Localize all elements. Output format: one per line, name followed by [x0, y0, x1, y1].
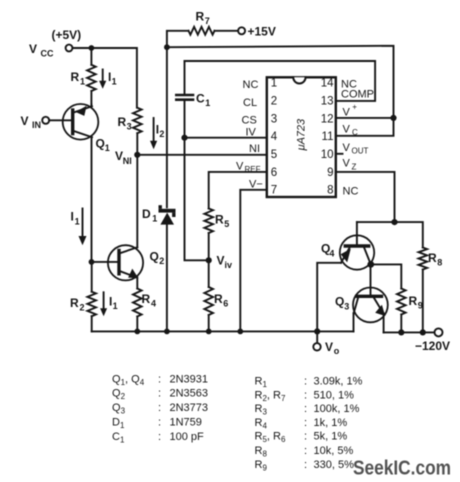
svg-text:7: 7 [271, 185, 277, 197]
node junction Q4 collector / Q3 base / R9 [367, 261, 374, 268]
svg-text:R9​: R9​ [255, 459, 268, 473]
svg-text:R: R [71, 70, 80, 84]
svg-text:8: 8 [437, 258, 442, 268]
svg-text:Z: Z [352, 163, 357, 172]
svg-text:100 pF: 100 pF [170, 431, 205, 443]
op-amp/regulator U1 uA723 [267, 77, 336, 197]
svg-text:330, 5%: 330, 5% [314, 459, 355, 471]
resistor R1 [71, 48, 96, 105]
svg-text:V: V [325, 340, 333, 354]
svg-text:Q: Q [150, 250, 159, 264]
capacitor C1 [176, 61, 210, 138]
svg-text:NI: NI [249, 143, 260, 155]
svg-text::: : [158, 373, 161, 385]
wire IC pin 9 VZ to Q4 base and R8 [336, 172, 423, 248]
svg-text:1: 1 [271, 78, 277, 90]
resistor R4 [133, 277, 156, 331]
svg-text:14: 14 [321, 78, 334, 90]
svg-text::: : [304, 403, 307, 415]
value label parts list left column [112, 373, 208, 444]
pin numbers left 1-7 [271, 78, 278, 197]
svg-text:1: 1 [80, 77, 85, 87]
svg-text:R: R [142, 292, 151, 306]
pin label CL pin2 [243, 97, 257, 109]
node VIN terminal [21, 114, 50, 130]
resistor R5 [204, 209, 229, 261]
svg-text:R: R [214, 292, 223, 306]
node VO terminal [313, 331, 340, 356]
node VNI [115, 149, 140, 166]
svg-text:R3​: R3​ [255, 403, 268, 417]
svg-text:510, 1%: 510, 1% [314, 389, 355, 401]
svg-text:1: 1 [205, 98, 210, 108]
resistor R6 [204, 260, 228, 331]
wire C1 top to IC pin 13 COMP [185, 61, 376, 101]
svg-text:2: 2 [159, 256, 164, 266]
node junction R8/-120V rail [420, 329, 426, 335]
node junction VO/rail [314, 328, 320, 334]
svg-text:OUT: OUT [352, 147, 369, 156]
svg-text:R8​: R8​ [255, 445, 268, 459]
svg-text::: : [304, 376, 307, 388]
wire Q4 collector node to R9 [371, 264, 402, 288]
transistor Q3 (NPN 2N3773) [335, 288, 388, 323]
svg-text:2: 2 [159, 129, 164, 139]
svg-text:COMP: COMP [341, 89, 374, 101]
svg-text:V: V [21, 114, 29, 128]
resistor R2 [70, 262, 96, 332]
pin label COMP pin13 [341, 89, 374, 101]
svg-text:Q: Q [335, 295, 344, 309]
svg-text:+15V: +15V [248, 25, 276, 39]
svg-text:2N3773: 2N3773 [170, 402, 209, 414]
svg-text:NI: NI [123, 156, 132, 166]
svg-text:V: V [343, 124, 351, 136]
resistor R3 [118, 108, 142, 155]
wire -120V rail [384, 331, 435, 333]
svg-text:7: 7 [205, 16, 210, 26]
svg-text:C1​: C1​ [112, 431, 125, 445]
svg-text:1: 1 [75, 217, 80, 227]
node junction R7/D1/V+ rail [164, 44, 170, 50]
svg-text:2N3931: 2N3931 [170, 373, 209, 385]
node junction VCC/R1 [89, 45, 95, 51]
wire VNI node down to Q2 collector [136, 155, 138, 248]
current arrow I2 (through R3) [150, 118, 164, 149]
svg-text:5: 5 [224, 219, 229, 229]
pin label V+ pin12 [343, 103, 358, 119]
svg-text:+: + [352, 103, 357, 112]
pin label NC pin14 [341, 79, 357, 91]
transistor Q1 (PNP 2N3931) [63, 104, 110, 153]
value label parts list right column [255, 376, 363, 473]
wire IV node down to Viv [185, 138, 209, 261]
svg-text:1k, 1%: 1k, 1% [314, 417, 348, 429]
svg-text:C: C [352, 128, 358, 137]
svg-text:4: 4 [151, 299, 156, 309]
node Viv junction R5/R6 [206, 254, 232, 271]
svg-text:V: V [29, 42, 37, 56]
wire VNI to IC pin 5 (NI) [137, 154, 266, 156]
wire Q2 base node to Q2 [92, 261, 119, 263]
svg-text:10k, 5%: 10k, 5% [314, 445, 354, 457]
svg-text::: : [304, 445, 307, 457]
svg-text:2N3563: 2N3563 [170, 388, 209, 400]
svg-text:6: 6 [271, 167, 277, 179]
svg-text::: : [304, 389, 307, 401]
svg-text:R: R [196, 10, 205, 24]
svg-text:(+5V): (+5V) [52, 28, 82, 42]
svg-text:9: 9 [418, 301, 423, 311]
node VCC (+5V) terminal [29, 28, 81, 59]
svg-text:CC: CC [41, 49, 54, 59]
wire VIN to Q1 base [49, 119, 71, 121]
svg-text:R: R [428, 251, 437, 265]
svg-text::: : [158, 431, 161, 443]
wire +15V rail to IC V+ and VC [167, 46, 394, 118]
svg-text::: : [158, 388, 161, 400]
node junction R4/rail [134, 329, 140, 335]
svg-text:R: R [215, 213, 224, 227]
wire Q4 collector node to Q3 base [370, 264, 372, 296]
wire output rail (VO) [92, 330, 354, 332]
svg-text:NC: NC [343, 186, 359, 198]
wire IC pin 6 VREF to R5 [209, 172, 267, 209]
node junction V+/VC [390, 115, 396, 121]
wire Q1 collector down to Q2 base node [91, 137, 93, 262]
svg-text:10: 10 [321, 149, 334, 161]
svg-text:Q3​: Q3​ [112, 402, 126, 416]
svg-text:V: V [236, 161, 244, 173]
svg-text:R4​: R4​ [255, 417, 268, 431]
wire IC pin 4 IV [185, 137, 267, 139]
wire IC pin 11 VC [336, 118, 394, 136]
svg-text:2: 2 [80, 303, 85, 313]
svg-text:11: 11 [322, 131, 334, 143]
pin label VREF pin6 [236, 161, 261, 175]
svg-text:3.09k, 1%: 3.09k, 1% [314, 376, 363, 388]
wire Q3 emitter down to -120V rail [383, 313, 385, 332]
pin label NC pin1 [243, 79, 259, 91]
pin label CS pin3 [242, 115, 257, 127]
svg-text:5: 5 [271, 149, 277, 161]
svg-text:I: I [71, 210, 74, 224]
svg-text:CL: CL [243, 97, 257, 109]
svg-text:V: V [343, 107, 351, 119]
node junction R6/rail [206, 329, 212, 335]
svg-text::: : [304, 431, 307, 443]
resistor R7 [167, 10, 238, 48]
svg-text::: : [304, 459, 307, 471]
svg-text:R: R [409, 294, 418, 308]
svg-text:13: 13 [321, 95, 334, 107]
svg-text:4: 4 [329, 249, 334, 259]
svg-text:3: 3 [344, 302, 349, 312]
transistor Q2 (NPN 2N3563) [108, 245, 164, 280]
transistor Q4 (PNP 2N3931) [321, 235, 374, 269]
wire IC pin 7 V- down to output rail [240, 190, 266, 332]
wire Q4 emitter to output rail [317, 263, 341, 332]
watermark SeekIC.com [353, 457, 451, 479]
svg-text:IN: IN [32, 120, 41, 130]
node Q2 base junction [89, 259, 95, 265]
zener diode D1 (1N759) [142, 205, 176, 331]
svg-text:1: 1 [152, 213, 157, 223]
svg-text:V: V [217, 254, 225, 268]
svg-text:9: 9 [327, 167, 333, 179]
svg-text::: : [158, 417, 161, 429]
svg-text:R2​, R7​: R2​, R7​ [255, 389, 286, 403]
svg-text:V−: V− [249, 179, 263, 191]
svg-text:8: 8 [327, 185, 333, 197]
svg-text:V: V [343, 142, 351, 154]
current arrow I1 (through R2) [100, 292, 118, 316]
svg-text:3: 3 [271, 113, 277, 125]
pin label V- pin7 [249, 179, 263, 191]
svg-text:Q: Q [96, 137, 105, 151]
svg-text:C: C [196, 92, 205, 106]
svg-text:CS: CS [242, 115, 257, 127]
svg-text:NC: NC [243, 79, 259, 91]
node +15V terminal [238, 25, 276, 39]
resistor R9 [397, 289, 423, 333]
current arrow I1 (Q1 collector) [71, 209, 87, 246]
svg-text:R: R [118, 115, 127, 129]
svg-text:iv: iv [225, 260, 233, 270]
node junction R9/-120V rail [398, 329, 404, 335]
svg-text:100k, 1%: 100k, 1% [314, 403, 360, 415]
svg-text:1: 1 [112, 77, 117, 87]
svg-text:2: 2 [271, 95, 277, 107]
svg-text:D: D [142, 207, 151, 221]
pin label IV pin4 [246, 127, 257, 139]
node -120V terminal [415, 328, 450, 353]
svg-text::: : [304, 417, 307, 429]
svg-text:Q1​, Q4​: Q1​, Q4​ [112, 373, 145, 387]
node junction V-/rail [237, 329, 243, 335]
svg-text:1N759: 1N759 [170, 417, 202, 429]
svg-text:R1​: R1​ [255, 376, 268, 390]
svg-text:Q2​: Q2​ [112, 388, 126, 402]
svg-text:R: R [70, 296, 79, 310]
svg-text:3: 3 [127, 122, 132, 132]
resistor R8 [419, 248, 443, 333]
node junction VZ line [391, 219, 397, 225]
pin label VOUT pin10 [343, 142, 369, 156]
svg-text:5k, 1%: 5k, 1% [314, 431, 348, 443]
pin numbers right 14-8 [321, 78, 334, 197]
pin label VZ pin9 [343, 158, 357, 172]
svg-text:μA723: μA723 [296, 118, 308, 151]
svg-text:1: 1 [113, 301, 118, 311]
svg-text:−120V: −120V [415, 339, 450, 353]
node junction C1/IV [181, 135, 187, 141]
wire pin 10 VOUT stub [336, 153, 343, 155]
svg-text:4: 4 [271, 131, 278, 143]
wire VCC rail to R1 and R3 [73, 48, 137, 108]
svg-text::: : [158, 402, 161, 414]
current arrow I1 (through R1) [99, 70, 117, 89]
pin label VC pin11 [343, 124, 359, 137]
svg-text:6: 6 [223, 299, 228, 309]
svg-text:SeekIC.com: SeekIC.com [353, 457, 451, 479]
svg-text:12: 12 [321, 113, 334, 125]
wire D1 branch from +15V junction [166, 47, 168, 207]
pin label NC pin8 [343, 186, 359, 198]
svg-text:IV: IV [246, 127, 257, 139]
svg-text:D1​: D1​ [112, 417, 125, 431]
wire IC pin 12 V+ [336, 117, 394, 119]
wire Q3 collector to output rail corner [353, 313, 355, 331]
pin label NI pin5 [249, 143, 260, 155]
svg-text:V: V [343, 158, 351, 170]
node junction D1/rail [164, 329, 170, 335]
svg-text:o: o [334, 346, 340, 356]
svg-text:1: 1 [105, 143, 110, 153]
svg-text:R5​, R6​: R5​, R6​ [255, 431, 286, 445]
